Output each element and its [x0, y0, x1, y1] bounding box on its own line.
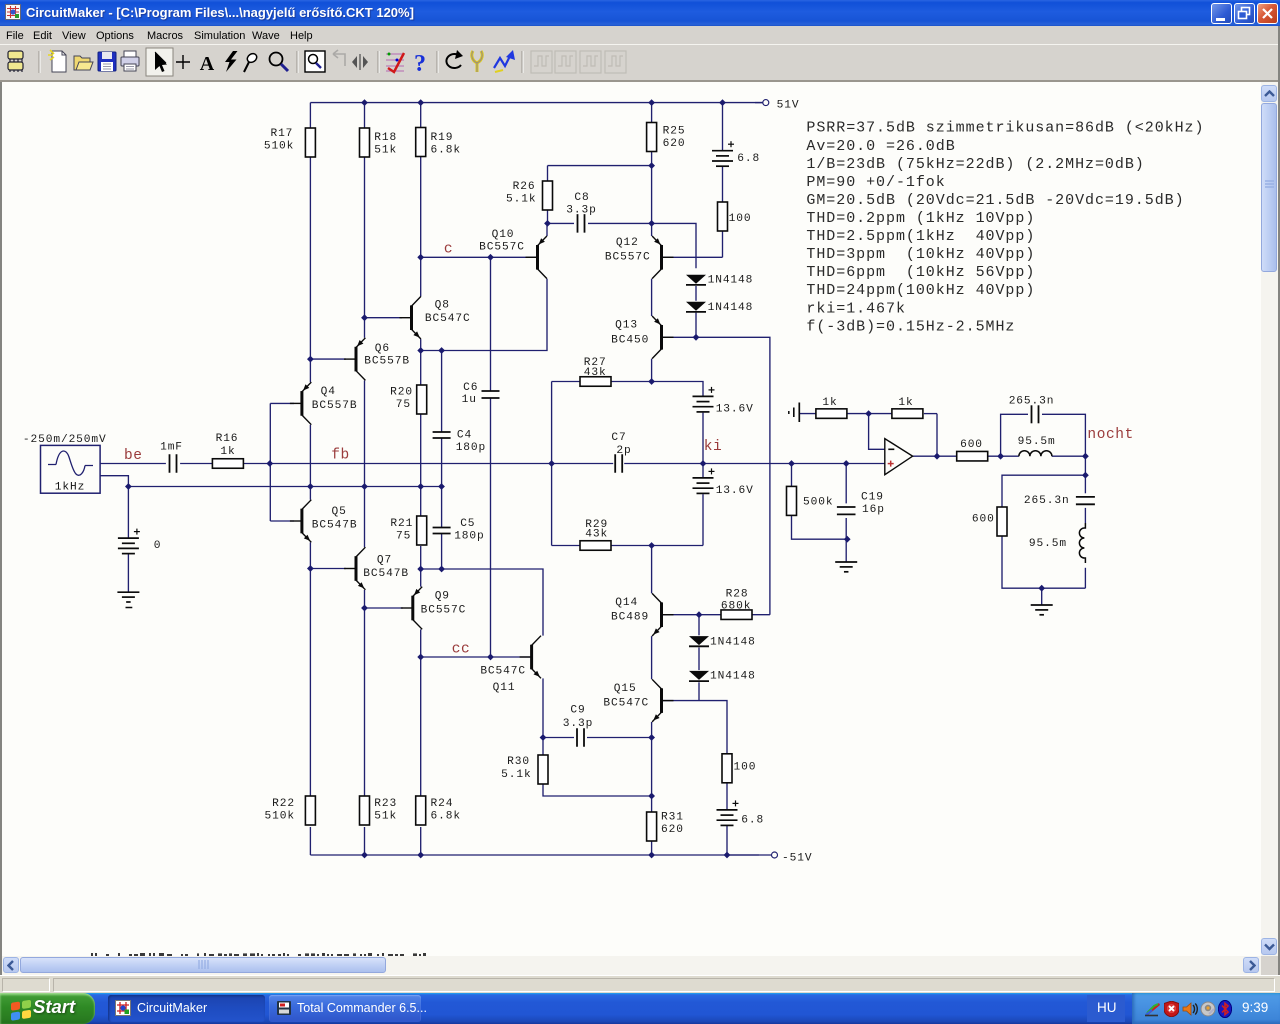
svg-text:BC557C: BC557C — [479, 242, 525, 254]
diode D3 1N4148 lower — [689, 636, 756, 648]
svg-text:Q11: Q11 — [493, 682, 516, 694]
wire Q13 base row — [663, 337, 770, 614]
resistor R18 51k — [360, 128, 398, 157]
junction (651.6,381.5) — [648, 378, 655, 385]
svg-text:R23: R23 — [374, 798, 397, 810]
resistor 500k — [787, 486, 834, 515]
svg-text:95.5m: 95.5m — [1029, 538, 1067, 550]
ground under C19 — [835, 562, 857, 572]
wire R30 column — [543, 738, 652, 797]
svg-text:BC547C: BC547C — [603, 698, 649, 710]
wire node down — [1084, 456, 1086, 475]
svg-text:R24: R24 — [431, 798, 454, 810]
transistor Q5 BC547B — [290, 500, 358, 543]
transistor Q12 BC557C — [605, 236, 674, 279]
signal source V1 -250m/250mV — [41, 445, 101, 493]
capacitor C6 1u — [462, 382, 500, 406]
junction (651.6,223.4) — [648, 220, 655, 227]
inductor 95.5m lower — [1029, 523, 1085, 563]
wire output ground stem — [1041, 588, 1043, 605]
svg-text:-51V: -51V — [782, 852, 812, 864]
transistor Q4 BC557B — [290, 382, 358, 425]
wire Q8 base — [365, 317, 403, 319]
svg-text:16p: 16p — [862, 504, 885, 516]
svg-text:BC557B: BC557B — [364, 356, 410, 368]
resistor 100 lower — [722, 754, 756, 783]
svg-text:nocht: nocht — [1087, 427, 1134, 443]
svg-text:1k: 1k — [898, 397, 913, 409]
svg-text:C7: C7 — [611, 432, 626, 444]
svg-text:R17: R17 — [270, 128, 293, 140]
minimize button — [1211, 3, 1232, 24]
svg-text:265.3n: 265.3n — [1024, 495, 1070, 507]
wire battery 13.6V lower — [702, 464, 704, 546]
label -250m/250mV — [23, 434, 107, 446]
Total Commander task button — [269, 995, 421, 1022]
wire 1k input row — [799, 413, 816, 415]
svg-text:BC557B: BC557B — [312, 400, 358, 412]
svg-text:13.6V: 13.6V — [716, 485, 754, 497]
transistor Q6 BC557B — [344, 338, 410, 381]
svg-text:Q8: Q8 — [435, 300, 450, 312]
svg-text:1mF: 1mF — [160, 441, 183, 453]
svg-text:BC557C: BC557C — [421, 605, 467, 617]
junction (696,337.3) — [693, 334, 700, 341]
svg-text:BC547B: BC547B — [363, 568, 409, 580]
junction (310.4,486.5) — [307, 483, 314, 490]
junction (1041.7,588.2) — [1038, 585, 1045, 592]
wire column x=420.7 — [420, 103, 422, 855]
resistor R16 1k — [212, 433, 243, 468]
svg-text:51k: 51k — [374, 144, 397, 156]
svg-text:100: 100 — [734, 762, 757, 774]
junction (651.6,737.5) — [648, 734, 655, 741]
wire Q5 base — [270, 520, 294, 522]
junction (1085.4,456.2) — [1082, 453, 1089, 460]
wire Q14/Q15 column — [651, 546, 653, 856]
junction (699,614.7) — [696, 611, 703, 618]
svg-text:5.1k: 5.1k — [501, 769, 531, 781]
junction (128.4,486.5) — [125, 483, 132, 490]
tray icon red shield — [1164, 1001, 1179, 1017]
ground output network — [1031, 605, 1053, 615]
window left border — [0, 82, 2, 975]
vertical scrollbar — [1261, 82, 1278, 956]
wire opamp feedback — [924, 414, 937, 457]
wire ground reference line — [100, 476, 441, 538]
svg-text:R28: R28 — [726, 589, 749, 601]
svg-text:?: ? — [414, 51, 426, 77]
svg-text:ki: ki — [704, 439, 723, 455]
transistor Q13 BC450 — [611, 316, 673, 359]
close button — [1257, 3, 1278, 24]
resistor R17 510k — [264, 128, 316, 157]
svg-text:Av=20.0 =26.0dB: Av=20.0 =26.0dB — [806, 138, 955, 155]
svg-text:180p: 180p — [454, 531, 484, 543]
svg-text:5.1k: 5.1k — [506, 194, 536, 206]
svg-text:Q6: Q6 — [375, 343, 390, 355]
resistor R30 5.1k — [501, 755, 548, 784]
junction (490.5,257.3) — [487, 254, 494, 261]
svg-text:6.8k: 6.8k — [431, 810, 461, 822]
node label cc — [452, 642, 471, 658]
transistor Q11 BC547C — [480, 636, 541, 694]
status bar — [0, 975, 1280, 993]
svg-text:680k: 680k — [721, 601, 751, 613]
svg-text:600: 600 — [972, 514, 995, 526]
junction (364.5,486.5) — [361, 483, 368, 490]
junction (547.5,223.4) — [544, 220, 551, 227]
wire top +51V rail — [310, 102, 762, 104]
wire top RLC loop — [1001, 414, 1086, 456]
right window border — [1278, 26, 1280, 975]
CircuitMaker task button (active) — [108, 995, 265, 1022]
tray icon speaker orange — [1182, 1001, 1199, 1017]
svg-text:Q10: Q10 — [492, 229, 515, 241]
wire R28 row y=614.7 — [663, 614, 770, 616]
junction (420.7,486.5) — [417, 483, 424, 490]
resistor R22 510k — [265, 796, 316, 825]
svg-text:510k: 510k — [264, 140, 294, 152]
wire R25 column x=651.6 — [651, 103, 653, 382]
svg-text:R22: R22 — [272, 798, 295, 810]
svg-text:R30: R30 — [507, 756, 530, 768]
node label fb — [331, 448, 350, 464]
wire 600 vert to bottom — [1002, 535, 1085, 588]
wire 100/6.8 column top — [722, 103, 724, 202]
transistor Q8 BC547C — [400, 296, 471, 339]
wire C19 branch — [845, 464, 847, 540]
svg-text:1u: 1u — [462, 394, 477, 406]
inductor 95.5m upper — [1018, 436, 1056, 456]
junction (364.5,855.0) — [361, 852, 368, 859]
resistor R25 620 — [647, 123, 686, 152]
resistor R20 75 — [390, 385, 427, 414]
wire output to L1 — [988, 455, 1019, 457]
svg-text:100: 100 — [729, 213, 752, 225]
junction (364.5,608) — [361, 605, 368, 612]
svg-text:BC450: BC450 — [611, 334, 649, 346]
terminal -51V — [727, 852, 812, 864]
svg-text:75: 75 — [396, 531, 411, 543]
svg-text:C4: C4 — [457, 430, 472, 442]
junction (651.6,165.6) — [648, 162, 655, 169]
resistor R24 6.8k — [416, 796, 461, 825]
restore button — [1234, 3, 1255, 24]
wire Q15 base to 100 — [663, 701, 727, 754]
svg-text:Q15: Q15 — [614, 683, 637, 695]
svg-text:-250m/250mV: -250m/250mV — [23, 434, 107, 446]
svg-text:GM=20.5dB (20Vdc=21.5dB -20Vdc: GM=20.5dB (20Vdc=21.5dB -20Vdc=19.5dB) — [806, 192, 1184, 209]
wire Q12 base to 100 — [663, 231, 723, 257]
junction (490.5,657) — [487, 654, 494, 661]
svg-text:THD=0.2ppm (1kHz 10Vpp): THD=0.2ppm (1kHz 10Vpp) — [806, 210, 1035, 227]
wire 500k branch — [792, 464, 848, 540]
battery 13.6V lower — [693, 468, 754, 497]
wire main fb/ki line — [100, 463, 885, 465]
simulation results text block — [806, 120, 1204, 336]
svg-text:cc: cc — [452, 642, 471, 658]
svg-text:Q9: Q9 — [435, 591, 450, 603]
junction (551.6,463.5) — [548, 460, 555, 467]
svg-text:THD=2.5ppm(1kHz 40Vpp): THD=2.5ppm(1kHz 40Vpp) — [806, 228, 1035, 245]
svg-text:620: 620 — [661, 824, 684, 836]
capacitor 1mF — [160, 441, 183, 472]
svg-text:600: 600 — [960, 439, 983, 451]
svg-text:180p: 180p — [456, 442, 486, 454]
wire Q6 base — [310, 358, 346, 360]
transistor Q7 BC547B — [344, 547, 409, 590]
wire C19 ground stem — [845, 539, 847, 562]
svg-text:A: A — [200, 53, 215, 75]
svg-text:be: be — [124, 448, 143, 464]
transistor Q10 BC557C — [479, 229, 547, 279]
wire column x=441.6 (C4/C5) — [441, 351, 443, 570]
op-amp U1 — [885, 439, 913, 475]
svg-text:Q7: Q7 — [377, 555, 392, 567]
svg-text:43k: 43k — [585, 529, 608, 541]
tray icon bluetooth — [1218, 1000, 1232, 1018]
transistor Q14 BC489 — [611, 593, 673, 636]
svg-text:R26: R26 — [513, 181, 536, 193]
capacitor 265.3n upper — [1009, 395, 1055, 423]
junction (310.4,568.5) — [307, 565, 314, 572]
svg-text:Q14: Q14 — [615, 597, 638, 609]
junction (937,456.2) — [934, 453, 941, 460]
title bar — [0, 0, 1280, 26]
capacitor C4 180p — [433, 430, 487, 455]
junction (651.6,855.0) — [648, 852, 655, 859]
junction (364.5,102.6) — [361, 99, 368, 106]
svg-text:R18: R18 — [374, 132, 397, 144]
wire cc row — [421, 656, 531, 658]
svg-text:f(-3dB)=0.15Hz-2.5MHz: f(-3dB)=0.15Hz-2.5MHz — [806, 318, 1015, 335]
system tray — [1132, 993, 1280, 1024]
svg-text:BC557C: BC557C — [605, 251, 651, 263]
transistor Q9 BC557C — [401, 587, 466, 630]
svg-text:3.3p: 3.3p — [563, 718, 593, 730]
app icon — [5, 4, 22, 21]
svg-text:620: 620 — [663, 138, 686, 150]
svg-text:R31: R31 — [661, 812, 684, 824]
diode D1 1N4148 upper — [686, 275, 753, 287]
tray icon colorful — [1145, 1001, 1161, 1017]
svg-text:R21: R21 — [390, 518, 413, 530]
junction (651.6,102.6) — [648, 99, 655, 106]
svg-text:1kHz: 1kHz — [55, 482, 85, 494]
wire Q10 collector run y=350.5 — [421, 279, 547, 351]
svg-text:C9: C9 — [570, 705, 585, 717]
svg-text:6.8k: 6.8k — [431, 144, 461, 156]
svg-text:R19: R19 — [431, 132, 454, 144]
wire Q11 collector/emitter — [421, 569, 543, 738]
svg-text:500k: 500k — [803, 497, 833, 509]
junction (543,737.5) — [540, 734, 547, 741]
node label c — [444, 242, 453, 258]
svg-text:C6: C6 — [463, 382, 478, 394]
junction (420.7,569) — [417, 566, 424, 573]
wire series branch left — [1002, 475, 1085, 507]
node label ki — [704, 439, 723, 455]
svg-text:95.5m: 95.5m — [1018, 436, 1056, 448]
svg-text:PSRR=37.5dB szimmetrikusan=86d: PSRR=37.5dB szimmetrikusan=86dB (<20kHz) — [806, 120, 1204, 137]
node label nocht — [1087, 427, 1134, 443]
svg-text:3.3p: 3.3p — [566, 205, 596, 217]
wire battery0 to ground — [127, 554, 129, 593]
svg-text:6.8: 6.8 — [741, 815, 764, 827]
wire Q10 emitter — [546, 223, 548, 236]
svg-text:6.8: 6.8 — [737, 153, 760, 165]
junction (846.2,463.5) — [843, 460, 850, 467]
wire column x=490.5 (c to cc) — [490, 257, 492, 657]
toolbar — [0, 44, 1280, 82]
svg-text:BC547C: BC547C — [425, 313, 471, 325]
wire R27 row y=381.5 — [552, 382, 703, 397]
svg-text:1N4148: 1N4148 — [708, 302, 754, 314]
resistor 600 vertical — [972, 507, 1007, 536]
capacitor 265.3n lower — [1024, 495, 1095, 507]
capacitor C7 2p — [611, 432, 631, 473]
capacitor C5 180p — [433, 518, 485, 543]
resistor 1k right — [892, 397, 923, 419]
junction (441.5,486.5) — [438, 483, 445, 490]
wire opamp output — [913, 455, 957, 457]
junction (847.2,539.2) — [844, 536, 851, 543]
svg-text:Q13: Q13 — [615, 320, 638, 332]
HU language indicator — [1087, 995, 1125, 1022]
wire Q4-Q5 base link x=270 — [269, 403, 271, 521]
taskbar — [0, 993, 1280, 1024]
svg-text:BC489: BC489 — [611, 612, 649, 624]
svg-text:C8: C8 — [574, 192, 589, 204]
wire bottom -51V rail — [310, 854, 759, 856]
ground under battery 0 — [117, 592, 139, 607]
wire between 1k resistors — [847, 413, 892, 415]
junction (269.8,463.5) — [266, 460, 273, 467]
wire Q9 base — [365, 607, 404, 609]
capacitor C8 3.3p — [566, 192, 596, 233]
diode D2 1N4148 upper — [686, 302, 753, 314]
junction (441.6,569) — [438, 566, 445, 573]
resistor R29 43k — [580, 519, 611, 550]
svg-text:R25: R25 — [663, 126, 686, 138]
svg-text:13.6V: 13.6V — [716, 404, 754, 416]
node label be — [124, 448, 143, 464]
svg-text:1N4148: 1N4148 — [710, 637, 756, 649]
wire Q4 base — [270, 402, 294, 404]
svg-text:fb: fb — [331, 448, 350, 464]
wire C8 row y=223.4 — [548, 223, 697, 268]
clipped text at canvas bottom — [91, 953, 426, 956]
svg-text:1N4148: 1N4148 — [710, 671, 756, 683]
wire L1 to node — [1052, 455, 1086, 457]
junction (1000.6,456.2) — [997, 453, 1004, 460]
junction (727,855.0) — [724, 852, 731, 859]
capacitor C9 3.3p — [563, 705, 593, 747]
svg-text:510k: 510k — [265, 810, 295, 822]
ac ground input symbol — [789, 403, 800, 423]
menu bar — [0, 26, 1280, 44]
junction (420.7,102.6) — [417, 99, 424, 106]
svg-text:R16: R16 — [216, 433, 239, 445]
battery 6.8 lower — [717, 800, 765, 826]
svg-text:THD=6ppm (10kHz 56Vpp): THD=6ppm (10kHz 56Vpp) — [806, 264, 1035, 281]
resistor R19 6.8k — [416, 128, 461, 157]
svg-text:THD=24ppm(100kHz 40Vpp): THD=24ppm(100kHz 40Vpp) — [806, 282, 1035, 299]
battery 6.8 upper — [712, 141, 760, 166]
junction (420.7,657) — [417, 654, 424, 661]
junction (420.7,350.5) — [417, 347, 424, 354]
junction (420.7,855.0) — [417, 852, 424, 859]
junction (441.6,350.5) — [438, 347, 445, 354]
junction (651.6,545.5) — [648, 542, 655, 549]
junction (364.5,317.7) — [361, 314, 368, 321]
svg-text:Q5: Q5 — [332, 506, 347, 518]
wire diode chain upper — [695, 286, 697, 337]
resistor R23 51k — [360, 796, 398, 825]
svg-text:1N4148: 1N4148 — [708, 275, 754, 287]
svg-text:Q4: Q4 — [321, 386, 336, 398]
resistor R27 43k — [580, 357, 611, 386]
svg-text:THD=3ppm (10kHz 40Vpp): THD=3ppm (10kHz 40Vpp) — [806, 246, 1035, 263]
wire fb divider column x=551.6 — [551, 382, 553, 546]
transistor Q15 BC547C — [603, 679, 673, 722]
svg-text:1k: 1k — [822, 397, 837, 409]
wire C9 row y=737.5 — [543, 737, 652, 739]
svg-text:1/B=23dB (75kHz=22dB) (2.2MHz=: 1/B=23dB (75kHz=22dB) (2.2MHz=0dB) — [806, 156, 1144, 173]
svg-text:51k: 51k — [374, 810, 397, 822]
junction (1085.4,475.2) — [1082, 472, 1089, 479]
start button — [0, 993, 95, 1024]
junction (651.6,796) — [648, 793, 655, 800]
svg-text:265.3n: 265.3n — [1009, 395, 1055, 407]
battery 0 — [118, 529, 162, 554]
wire column x=364.5 — [364, 103, 366, 855]
diode D4 1N4148 lower — [689, 671, 756, 683]
tray icon gray speaker — [1200, 1001, 1216, 1017]
svg-text:Q12: Q12 — [616, 237, 639, 249]
junction (791.5,463.5) — [788, 460, 795, 467]
wire right branch cap/coil — [1084, 475, 1086, 588]
svg-text:PM=90 +0/-1fok: PM=90 +0/-1fok — [806, 174, 945, 191]
junction (310.4,359.1) — [307, 356, 314, 363]
svg-text:c: c — [444, 242, 453, 258]
wire battery 13.6V upper to ki — [702, 413, 704, 464]
resistor 600 horizontal — [957, 439, 988, 461]
capacitor C19 16p — [837, 492, 885, 516]
svg-text:C19: C19 — [861, 492, 884, 504]
wire 100/6.8 column bottom — [726, 783, 728, 855]
svg-text:2p: 2p — [616, 445, 631, 457]
wire inverting input — [869, 414, 885, 450]
junction (868.6,413.6) — [865, 410, 872, 417]
svg-text:0: 0 — [154, 540, 162, 552]
wire R29 row y=545.5 — [552, 545, 703, 547]
resistor R26 5.1k — [506, 181, 552, 210]
battery 13.6V upper — [693, 387, 754, 416]
horizontal scrollbar — [2, 956, 1261, 975]
resistor R21 75 — [390, 516, 426, 545]
terminal 51V — [755, 99, 799, 111]
wire diode chain lower — [698, 615, 700, 701]
svg-text:C5: C5 — [460, 518, 475, 530]
svg-text:BC547C: BC547C — [480, 666, 526, 678]
wire Q7 base — [310, 568, 346, 570]
svg-text:BC547B: BC547B — [312, 520, 358, 532]
resistor R28 680k — [721, 589, 752, 620]
svg-text:75: 75 — [396, 399, 411, 411]
wire left column x=310 — [309, 103, 311, 855]
